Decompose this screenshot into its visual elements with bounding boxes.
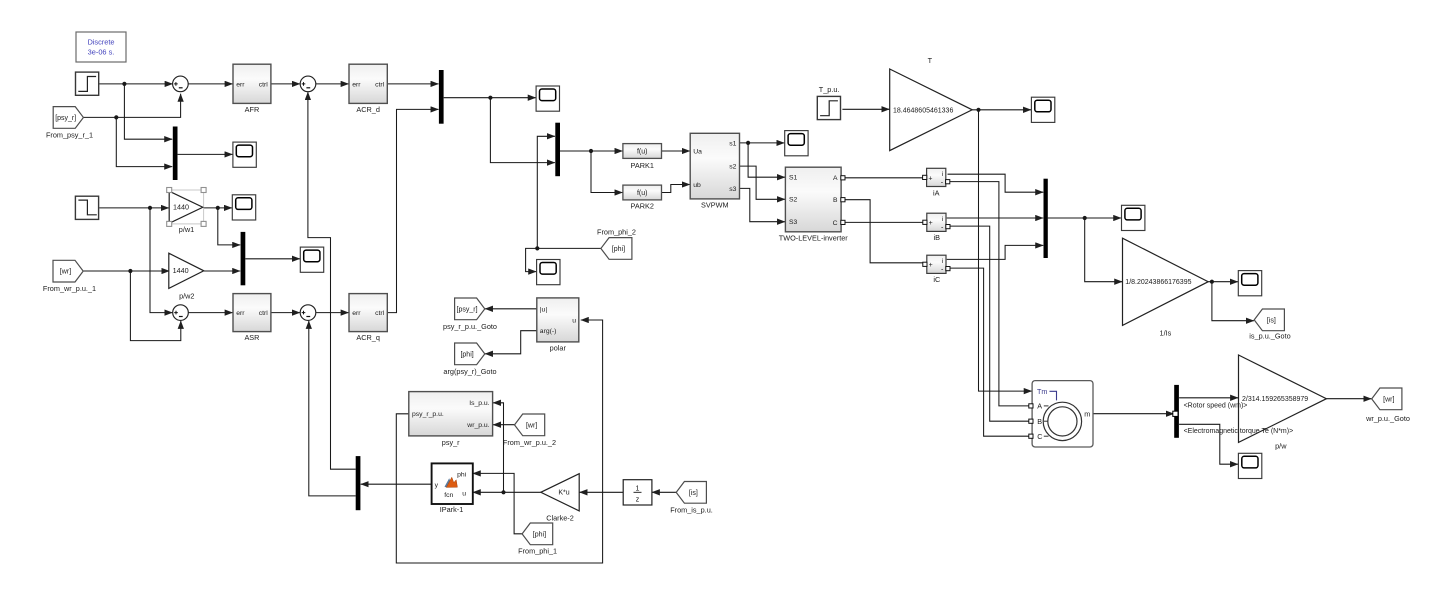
wire iA - -> machine A [948, 182, 1031, 406]
svg-text:1/8.20243866176395: 1/8.20243866176395 [1125, 279, 1191, 286]
wire From_wr_p.u._2 -> psy_r wr_p.u. [493, 424, 515, 426]
wire iC i -> Mux_abc in3 [947, 245, 1043, 259]
svg-text:S3: S3 [789, 219, 798, 226]
svg-text:s3: s3 [729, 186, 736, 193]
wire C -> iB [843, 221, 925, 223]
goto tag is_p.u._Goto [1249, 309, 1290, 341]
svg-text:psy_r_p.u._Goto: psy_r_p.u._Goto [443, 322, 497, 331]
junction [488, 96, 492, 100]
svg-text:psy_r_p.u.: psy_r_p.u. [412, 411, 444, 418]
svg-text:arg(psy_r)_Goto: arg(psy_r)_Goto [443, 367, 496, 376]
wire s1 -> S1 [748, 143, 785, 177]
svg-text:B: B [1037, 417, 1042, 426]
svg-text:K*u: K*u [558, 490, 569, 497]
gain p/w (2/314.159265358979) [1239, 355, 1327, 451]
goto tag wr_p.u._Goto [1365, 388, 1410, 423]
svg-text:Tm: Tm [1037, 387, 1047, 396]
wire Demux_dq out2 -> Sum4 bottom [309, 321, 356, 496]
svg-text:p/w: p/w [1275, 442, 1287, 451]
svg-text:S1: S1 [789, 175, 798, 182]
svg-text:fcn: fcn [444, 492, 453, 499]
wire Mux_dq -> Scope4 [444, 97, 536, 99]
wire iA i -> Mux_abc in1 [948, 174, 1044, 192]
junction [1083, 216, 1087, 220]
scope Scope1 [233, 142, 256, 167]
svg-text:err: err [352, 81, 361, 88]
mux Mux_w [241, 232, 246, 285]
svg-text:f(u): f(u) [637, 190, 648, 197]
wire polar |u| -> psy_r_p.u._Goto [485, 308, 537, 310]
wire branch -> psy_r Is_p.u. [493, 403, 504, 493]
svg-text:18.4648605461336: 18.4648605461336 [893, 107, 953, 114]
svg-text:ctrl: ctrl [375, 310, 385, 317]
wire PARK1 -> SVPWM Ua [662, 150, 690, 152]
svg-text:ub: ub [693, 182, 701, 189]
svg-text:C: C [833, 220, 838, 227]
svg-text:Clarke-2: Clarke-2 [546, 513, 574, 522]
scope Scope2 [232, 195, 255, 220]
junction [589, 149, 593, 153]
mux Mux_abc [1044, 179, 1048, 258]
wire psy_r out -> polar u [396, 320, 602, 563]
gain Clarke-2 (K*u) [541, 474, 579, 523]
svg-text:From_wr_p.u._1: From_wr_p.u._1 [43, 284, 96, 293]
junction [148, 206, 152, 210]
svg-text:phi: phi [457, 471, 467, 478]
svg-text:m: m [1084, 409, 1090, 418]
wire rotor speed -> p/w [1179, 397, 1238, 399]
scope Scope7 [1122, 205, 1145, 230]
svg-text:[wr]: [wr] [60, 269, 71, 276]
svg-text:1/Is: 1/Is [1160, 329, 1172, 338]
svg-text:SVPWM: SVPWM [701, 201, 729, 210]
wire T_p.u. -> T gain [842, 108, 889, 110]
svg-text:f(u): f(u) [637, 149, 648, 156]
junction [128, 269, 132, 273]
svg-text:ACR_d: ACR_d [356, 105, 380, 114]
gain p/w1 (1440) [169, 191, 203, 234]
svg-text:C: C [1037, 432, 1042, 441]
wire branch -> Mux_uv in2 [490, 98, 555, 163]
scope Scope5 [537, 260, 560, 285]
junction [535, 246, 539, 250]
current measurement iC [927, 255, 946, 273]
svg-text:IPark-1: IPark-1 [440, 505, 464, 514]
from tag From_wr_p.u._2 [503, 414, 556, 447]
gain p/w2 (1440) [169, 253, 204, 300]
junction [114, 115, 118, 119]
svg-text:[phi]: [phi] [533, 531, 546, 538]
svg-text:ctrl: ctrl [259, 81, 269, 88]
svg-text:[phi]: [phi] [612, 246, 625, 253]
svg-text:From_is_p.u.: From_is_p.u. [670, 505, 713, 514]
wire s3 -> S3 [740, 188, 785, 221]
svg-text:arg(-): arg(-) [540, 328, 557, 335]
svg-text:PARK2: PARK2 [631, 201, 654, 210]
wire Sum3 -> ASR [188, 312, 232, 314]
subsystem polar [537, 298, 579, 353]
wire iB i -> Mux_abc in2 [947, 217, 1043, 219]
svg-text:iA: iA [933, 188, 940, 197]
Discrete sample time annotation [76, 32, 126, 62]
subsystem ACR_q [349, 294, 387, 343]
asynchronous machine block [1032, 381, 1093, 447]
svg-text:From_wr_p.u._2: From_wr_p.u._2 [503, 438, 556, 447]
gain 1/Is (1/8.20243866176395) [1123, 238, 1209, 337]
svg-text:|u|: |u| [540, 306, 548, 313]
svg-text:<Rotor speed (wm)>: <Rotor speed (wm)> [1184, 402, 1248, 409]
wire ACR_q -> Mux_dq in2 [387, 109, 438, 312]
svg-text:[wr]: [wr] [526, 422, 537, 429]
scope Scope3 [300, 247, 323, 272]
svg-text:From_psy_r_1: From_psy_r_1 [46, 130, 93, 139]
wire Mux_uv out -> PARK1 [560, 150, 623, 152]
svg-text:[wr]: [wr] [1383, 396, 1394, 403]
svg-text:ctrl: ctrl [375, 81, 385, 88]
wire B -> iC [843, 200, 925, 263]
wire AFR -> Sum2 [271, 83, 300, 85]
svg-text:[psy_r]: [psy_r] [55, 115, 76, 122]
svg-text:+: + [929, 262, 933, 269]
svg-text:PARK1: PARK1 [631, 161, 654, 170]
junction [216, 206, 220, 210]
current measurement iB [927, 213, 946, 231]
svg-text:Ua: Ua [693, 148, 702, 155]
goto tag arg(psy_r)_Goto [443, 343, 496, 376]
selection rectangle of gain p/w1 [169, 190, 203, 224]
svg-text:Discrete: Discrete [87, 38, 114, 47]
svg-text:ASR: ASR [244, 333, 259, 342]
step source flux reference [76, 72, 99, 95]
svg-text:S2: S2 [789, 197, 798, 204]
wire ASR -> Sum4 [271, 312, 300, 314]
from tag From_phi_1 [518, 523, 557, 555]
from tag From_psy_r_1 [46, 107, 93, 140]
scope Scope6 [785, 131, 808, 156]
mux Mux_dq [439, 70, 444, 124]
step source speed reference [75, 196, 98, 219]
wire Sum2 -> ACR_d [316, 83, 349, 85]
wire polar arg -> arg_Goto [485, 331, 537, 354]
svg-text:+: + [929, 220, 933, 227]
svg-text:err: err [236, 310, 245, 317]
wire Clarke-2 -> IPark u [473, 491, 541, 493]
wire branch -> Sum3 [150, 208, 172, 313]
wire machine m -> Demux_m [1093, 413, 1174, 415]
wire -> PARK2 [591, 151, 623, 193]
svg-text:psy_r: psy_r [442, 438, 460, 447]
wire IPark y -> Demux_dq [361, 483, 432, 485]
wire 1/z -> Clarke-2 [580, 491, 624, 493]
svg-text:p/w1: p/w1 [179, 225, 194, 234]
svg-text:Is_p.u.: Is_p.u. [469, 400, 490, 407]
svg-text:T_p.u.: T_p.u. [819, 85, 840, 94]
step source T_p.u. [817, 85, 840, 119]
wire branch -> Mux_scope1 in1 [124, 84, 172, 139]
wire Sum1 -> AFR [188, 83, 232, 85]
port B of inverter [841, 198, 845, 202]
junction [122, 82, 126, 86]
wire Mux_w -> Scope3 [245, 258, 300, 260]
svg-text:<Electromagnetic torque Te (N*: <Electromagnetic torque Te (N*m)> [1184, 428, 1294, 435]
svg-text:1440: 1440 [173, 266, 189, 275]
wire branch -> is_p.u._Goto [1212, 282, 1254, 321]
scope Scope9 [1238, 453, 1261, 478]
wire From_phi_2 -> junction [537, 247, 601, 249]
svg-text:s2: s2 [729, 164, 736, 171]
input port marker on Demux_m [1173, 411, 1178, 416]
port A of inverter [841, 176, 845, 180]
wire p/w -> wr_p.u._Goto [1326, 398, 1371, 400]
junction [501, 490, 505, 494]
subsystem psy_r [409, 392, 493, 447]
wire Sum4 -> ACR_q [316, 312, 349, 314]
fcn block PARK2 [623, 185, 662, 200]
sum Sum1 (+-) [173, 76, 189, 92]
from tag From_is_p.u. [670, 482, 713, 515]
svg-text:[is]: [is] [1267, 317, 1276, 324]
wire torque -> Scope9 [1179, 424, 1238, 464]
sum Sum2 (+-) [300, 76, 316, 92]
svg-text:2/314.159265358979: 2/314.159265358979 [1242, 396, 1308, 403]
gain T (18.4648605461336) [890, 56, 973, 151]
wire s2 -> S2 [740, 166, 785, 199]
svg-text:u: u [572, 317, 576, 324]
wire phi -> Mux_uv in1 [537, 136, 555, 248]
sum Sum3 (+-) [173, 305, 189, 321]
svg-text:From_phi_1: From_phi_1 [518, 546, 557, 555]
wire ACR_d -> Mux_dq in1 [387, 83, 438, 85]
svg-text:polar: polar [550, 343, 567, 352]
svg-text:iB: iB [934, 233, 941, 242]
current measurement iA [927, 168, 946, 186]
wire From_wr_p.u._1 -> p/w2 [83, 270, 169, 272]
wire p/w1 -> Scope2 [203, 207, 232, 209]
wire From_psy_r_1 -> Sum1 bottom [83, 94, 180, 118]
junction [976, 108, 980, 112]
svg-text:B: B [833, 197, 838, 204]
demux Demux_m (bus selector) [1174, 385, 1179, 438]
mux Mux_uv [555, 123, 560, 177]
wire step2 -> p/w1 [99, 207, 169, 209]
wire From_is_p.u. -> 1/z [652, 491, 676, 493]
svg-text:1440: 1440 [173, 203, 189, 212]
svg-text:p/w2: p/w2 [179, 291, 194, 300]
port C of inverter [841, 220, 845, 224]
svg-text:+: + [928, 175, 932, 182]
svg-text:From_phi_2: From_phi_2 [597, 227, 636, 236]
svg-text:wr_p.u.: wr_p.u. [466, 422, 489, 429]
svg-text:wr_p.u._Goto: wr_p.u._Goto [1365, 414, 1410, 423]
demux Demux_dq [356, 456, 361, 510]
wire branch -> Mux_w in1 [218, 208, 240, 245]
fcn block PARK1 [623, 144, 662, 159]
svg-text:3e-06 s.: 3e-06 s. [88, 48, 115, 57]
wire iB - -> machine B [947, 226, 1031, 421]
wire From_phi_1 -> IPark phi [473, 473, 522, 533]
wire T -> Scope8 [972, 109, 1031, 111]
goto tag psy_r_p.u._Goto [443, 298, 497, 331]
svg-text:u: u [462, 490, 466, 497]
svg-text:[phi]: [phi] [460, 351, 473, 358]
wire branch -> Sum3 bottom [130, 271, 180, 341]
mux Mux_scope1 [173, 127, 178, 181]
wire iC - -> machine C [947, 268, 1031, 436]
scope Scope10 [1238, 271, 1261, 296]
wire Mux_abc -> Scope7 [1048, 217, 1122, 219]
wire p/w2 -> Mux_w in2 [204, 270, 240, 272]
svg-text:ctrl: ctrl [259, 310, 269, 317]
svg-text:T: T [928, 56, 933, 65]
scope Scope4 [536, 86, 559, 111]
wire T -> machine Tm [979, 110, 1032, 391]
junction [746, 141, 750, 145]
port C of machine [1029, 434, 1033, 438]
subsystem ACR_d [349, 64, 387, 114]
wire PARK2 -> SVPWM ub [662, 185, 690, 193]
svg-text:is_p.u._Goto: is_p.u._Goto [1249, 332, 1290, 341]
wire 1/Is -> Scope10 [1208, 281, 1238, 283]
scope Scope8 [1031, 97, 1054, 122]
svg-text:A: A [833, 175, 838, 182]
svg-text:1: 1 [636, 485, 640, 492]
from tag From_wr_p.u._1 [43, 260, 96, 293]
svg-text:err: err [352, 310, 361, 317]
junction [1210, 280, 1214, 284]
from tag From_phi_2 shape [601, 238, 632, 260]
sum Sum4 (+-) [300, 305, 316, 321]
svg-text:iC: iC [933, 275, 940, 284]
wire -> Scope5 [526, 248, 538, 271]
wire branch -> Mux_scope1 in2 [116, 117, 172, 166]
subsystem AFR [233, 64, 271, 114]
svg-text:[is]: [is] [689, 490, 698, 497]
wire step -> Sum1 [99, 83, 172, 85]
unit delay block 1/z [623, 480, 652, 505]
selection handles of gain p/w1 [167, 188, 172, 193]
wire A -> iA [843, 177, 923, 179]
svg-text:[psy_r]: [psy_r] [457, 306, 478, 313]
wire branch -> 1/Is [1085, 218, 1123, 282]
svg-text:s1: s1 [729, 140, 736, 147]
svg-text:TWO-LEVEL-inverter: TWO-LEVEL-inverter [779, 233, 848, 242]
svg-text:err: err [236, 81, 245, 88]
MATLAB membrane logo [445, 478, 451, 487]
wire Demux_dq out1 -> Sum2 bottom [308, 92, 356, 469]
port B of machine [1029, 419, 1033, 423]
wire Mux_scope1 -> Scope1 [178, 153, 233, 155]
subsystem ASR [233, 294, 271, 343]
port A of machine [1029, 404, 1033, 408]
svg-text:AFR: AFR [245, 105, 260, 114]
svg-text:y: y [435, 482, 439, 489]
svg-text:z: z [636, 496, 640, 503]
svg-text:A: A [1037, 402, 1042, 411]
svg-text:ACR_q: ACR_q [356, 333, 380, 342]
MATLAB function block IPark-1 [432, 463, 473, 514]
subsystem TWO-LEVEL-inverter [779, 167, 848, 242]
wire s1 -> Scope6 [740, 142, 785, 144]
subsystem SVPWM [690, 133, 739, 209]
